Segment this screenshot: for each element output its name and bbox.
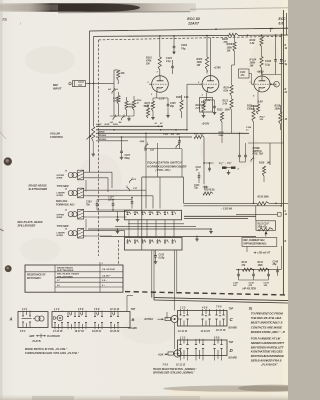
wire volume 2 bbox=[96, 129, 187, 131]
svg-text:OPPTAKSSTRØM ADJ.: OPPTAKSSTRØM ADJ. bbox=[243, 244, 267, 246]
coupling capacitor C104 0.1u bbox=[171, 60, 174, 74]
wire head4 links bbox=[112, 230, 125, 237]
label R101 470k 1W bbox=[145, 57, 152, 66]
svg-text:7 8 9: 7 8 9 bbox=[216, 305, 222, 308]
svg-text:S(M): S(M) bbox=[140, 141, 145, 143]
svg-text:1.2k: 1.2k bbox=[250, 42, 255, 45]
shield dashed line vertical bbox=[98, 40, 100, 256]
switch contact eq feed bbox=[176, 143, 180, 149]
svg-text:C142: C142 bbox=[159, 254, 165, 257]
switch contacts A2 A4 bbox=[109, 115, 125, 124]
right edge fragment 2 bbox=[285, 61, 288, 66]
resistor R106 100k vertical top bbox=[232, 35, 237, 80]
label FUNKSJONSVELGER caption bbox=[25, 351, 80, 355]
svg-text:R121: R121 bbox=[223, 101, 229, 103]
svg-text:47k: 47k bbox=[120, 72, 126, 75]
svg-text:0.05µ: 0.05µ bbox=[159, 257, 165, 259]
right edge fragment 1 bbox=[285, 45, 288, 50]
svg-text:C11: C11 bbox=[156, 212, 159, 214]
paragraph marker D bbox=[249, 306, 252, 310]
label MODE SWITCH caption bbox=[25, 347, 68, 351]
svg-text:2.8V: 2.8V bbox=[257, 99, 264, 103]
lower strip pins bottom bbox=[163, 363, 186, 366]
B+ supply bus lower line bbox=[94, 35, 289, 36]
right edge fragment 5 bbox=[285, 211, 288, 216]
wire extra to aux vertical bbox=[167, 312, 175, 349]
label POS 178 bbox=[156, 168, 171, 172]
svg-text:A1: A1 bbox=[154, 123, 157, 125]
svg-text:6.6: 6.6 bbox=[279, 21, 284, 25]
svg-text:TOP: TOP bbox=[229, 342, 234, 344]
svg-text:AUX: AUX bbox=[157, 353, 164, 356]
label C106 0.1u bbox=[265, 60, 272, 66]
left signal wire vertical bbox=[93, 36, 95, 83]
svg-text:0.1µ: 0.1µ bbox=[265, 63, 270, 66]
label 500k bbox=[96, 124, 119, 126]
label TRACK SELECTOR caption bbox=[153, 368, 197, 371]
svg-text:BOARD: BOARD bbox=[129, 328, 138, 330]
svg-text:27k: 27k bbox=[241, 265, 247, 267]
svg-text:0.8 ~: 0.8 ~ bbox=[102, 280, 108, 282]
svg-text:500k: 500k bbox=[113, 124, 119, 126]
label C105 25u bbox=[169, 103, 176, 108]
svg-text:EXTRA: EXTRA bbox=[145, 318, 154, 321]
svg-text:KONTAKTENE VELGES: KONTAKTENE VELGES bbox=[251, 350, 283, 354]
svg-text:100k: 100k bbox=[264, 197, 270, 199]
label R111 510 bbox=[247, 105, 253, 111]
svg-text:B: B bbox=[132, 317, 135, 322]
double wire right lower bbox=[184, 205, 282, 207]
label BROWN2 bbox=[98, 139, 107, 141]
svg-text:A15: A15 bbox=[149, 150, 155, 152]
label R121 2.4k bbox=[222, 101, 229, 106]
svg-text:10 11 12: 10 11 12 bbox=[110, 308, 120, 311]
strip B contacts upper bbox=[67, 312, 119, 317]
labels HP filter caps bbox=[233, 283, 270, 288]
lower right strip box bbox=[178, 340, 228, 356]
wire top right vertical bbox=[270, 29, 272, 33]
wire V3 grid bbox=[251, 74, 253, 85]
label KORREKSJONSOMKOBLER bbox=[147, 164, 186, 168]
rec head lower wires bbox=[87, 230, 125, 236]
svg-text:+24.5V: +24.5V bbox=[202, 123, 210, 126]
svg-text:BRYTEREN PARTSLUTT: BRYTEREN PARTSLUTT bbox=[251, 345, 285, 349]
svg-text:RESISTANCE OF: RESISTANCE OF bbox=[27, 275, 46, 277]
svg-text:2.4k: 2.4k bbox=[222, 102, 228, 105]
contact C17 bbox=[126, 186, 138, 192]
volume potentiometer R100 500k bbox=[87, 127, 96, 157]
switch contact S(M)1 bbox=[140, 141, 155, 152]
label BIAS ADJ FORMAGN ADJ bbox=[56, 200, 75, 206]
svg-text:R118: R118 bbox=[259, 163, 265, 165]
upper right strip box bbox=[178, 311, 228, 327]
resistor R102 27k inline on bus bbox=[228, 33, 239, 36]
lower right strip pins top bbox=[180, 336, 220, 339]
svg-text:+176V: +176V bbox=[214, 67, 222, 70]
svg-text:SLETTEHODER: SLETTEHODER bbox=[57, 270, 74, 272]
label REC CURRENT ADJ box bbox=[242, 238, 277, 247]
right page border line bbox=[282, 10, 284, 295]
resistor R118 1M bbox=[259, 163, 270, 183]
strip row1 contacts bbox=[127, 211, 176, 214]
svg-text:6.8k: 6.8k bbox=[224, 90, 229, 92]
label TOP B BOARD bbox=[129, 309, 138, 330]
label SPORVELGER caption bbox=[153, 372, 195, 375]
right edge fragment 6 bbox=[285, 241, 287, 243]
resistor R111 510 vertical bbox=[252, 105, 255, 122]
HP filter wire bbox=[236, 269, 281, 271]
svg-text:4 5 6: 4 5 6 bbox=[213, 336, 220, 339]
svg-text:25µ: 25µ bbox=[272, 264, 278, 266]
svg-text:CONTACTS ARE MADE: CONTACTS ARE MADE bbox=[251, 325, 283, 329]
label BEIGE bbox=[98, 131, 105, 133]
right edge fragment 4 bbox=[285, 119, 288, 121]
svg-text:100k: 100k bbox=[275, 108, 281, 111]
label REC PLAYB HEADS bbox=[18, 221, 43, 228]
label AMP PLAYBACK arrows bbox=[28, 334, 60, 338]
svg-text:AG: AG bbox=[176, 134, 181, 136]
capacitor C101 300 on wire bbox=[163, 134, 181, 149]
svg-text:500µ: 500µ bbox=[125, 158, 131, 160]
svg-text:FUNKSJONSVELGER I STILLING „PL: FUNKSJONSVELGER I STILLING „PLAYB.” bbox=[25, 351, 80, 355]
label 300k b bbox=[129, 104, 135, 109]
wire volume 4 bbox=[96, 136, 192, 138]
strip B contacts lower bbox=[54, 323, 119, 328]
erase head wires right bbox=[87, 172, 112, 192]
svg-text:WIRE: WIRE bbox=[57, 217, 63, 219]
bottom frame double rule upper bbox=[154, 298, 288, 301]
svg-text:REC./PLAYB. HEADS: REC./PLAYB. HEADS bbox=[57, 274, 79, 276]
svg-text:WIRE: WIRE bbox=[57, 178, 63, 180]
svg-text:TOP: TOP bbox=[229, 309, 234, 311]
label R116 100k bbox=[275, 105, 281, 111]
svg-text:C104: C104 bbox=[108, 196, 114, 199]
wire volume 5 bbox=[96, 140, 128, 142]
switch A box bbox=[18, 312, 48, 328]
svg-text:1 2 3: 1 2 3 bbox=[180, 336, 186, 339]
label R106 100k 1W bbox=[227, 43, 233, 52]
label lower horn 1 bbox=[57, 193, 66, 198]
interconnect wire b bbox=[115, 225, 196, 227]
strip row1 labels bbox=[126, 212, 174, 214]
svg-text:R122: R122 bbox=[217, 110, 223, 112]
switch strip row2 box bbox=[125, 238, 183, 251]
strip B jack bbox=[53, 315, 63, 321]
wire strip B up bbox=[127, 296, 133, 312]
label 200mV bbox=[254, 252, 271, 255]
right edge fragment 3 bbox=[284, 89, 288, 94]
resistor R106a vertical bbox=[117, 92, 120, 104]
svg-text:SLETTEHODER: SLETTEHODER bbox=[29, 188, 48, 191]
label PLAYBACK right bbox=[260, 363, 279, 367]
ground bus wire bbox=[88, 228, 211, 230]
head interconnect wires bbox=[85, 180, 87, 230]
label upper wire 2 bbox=[57, 214, 65, 219]
svg-text:DER B AVVIKER FRA S: DER B AVVIKER FRA S bbox=[251, 359, 282, 363]
HP filter bottom wire bbox=[239, 279, 269, 281]
HP filter resistor 2 bbox=[259, 268, 269, 271]
resistor R103 100k 1W vertical bbox=[205, 36, 208, 74]
label C201 74u bbox=[181, 43, 188, 51]
svg-text:CONTROL: CONTROL bbox=[50, 135, 64, 139]
svg-text:SPORVELGER I STILLING „NORMAL”: SPORVELGER I STILLING „NORMAL” bbox=[153, 372, 195, 375]
output terminal M bbox=[270, 81, 279, 87]
svg-text:REC. CURRENT ADJ.: REC. CURRENT ADJ. bbox=[243, 240, 265, 242]
svg-text:6 5 4: 6 5 4 bbox=[20, 330, 26, 333]
svg-text:C148: C148 bbox=[273, 260, 279, 263]
shielded pot P104 2.5k box bbox=[200, 98, 213, 113]
switch contact A3 bbox=[107, 88, 119, 94]
right inner vertical wire bbox=[280, 34, 282, 206]
svg-text:220k: 220k bbox=[218, 135, 225, 137]
label +24.5V bbox=[202, 123, 210, 126]
wire eq feed horizontal bbox=[144, 149, 182, 177]
label R110 1.2k bbox=[250, 39, 256, 45]
label PLAYB bbox=[33, 340, 42, 343]
upper right strip pins bbox=[180, 305, 222, 309]
svg-text:BOARD: BOARD bbox=[229, 357, 238, 359]
capacitor C115 47n boxed bbox=[239, 69, 252, 78]
svg-text:BROWN: BROWN bbox=[98, 135, 107, 137]
pins between strips right bbox=[178, 329, 226, 333]
wire V3 plate up bbox=[261, 72, 263, 76]
label TOP D BOARD bbox=[229, 342, 238, 359]
svg-text:UPPER: UPPER bbox=[57, 175, 65, 177]
tube V1 pin numbers bbox=[147, 72, 159, 97]
HP filter resistor 1 bbox=[243, 268, 254, 271]
strip B pins bottom bbox=[53, 330, 120, 333]
svg-text:1 2 3: 1 2 3 bbox=[54, 308, 60, 311]
HP filter cap 3 bbox=[267, 269, 270, 280]
strip B pins top bbox=[54, 308, 120, 311]
shield dashed line horizontal bbox=[99, 36, 284, 40]
tube type label ECC83/12AX7 bbox=[187, 17, 200, 26]
handwritten page number 76 bbox=[2, 17, 7, 22]
label 2.5 3 6ft bbox=[221, 207, 232, 210]
switch A bottom contacts bbox=[22, 322, 31, 328]
svg-text:TYPE NEW: TYPE NEW bbox=[57, 226, 70, 228]
svg-text:HORN: HORN bbox=[57, 195, 64, 197]
cathode capacitor C109 bbox=[207, 100, 217, 115]
label 2.8V bbox=[257, 99, 264, 103]
svg-text:TYPE NEW: TYPE NEW bbox=[57, 186, 70, 188]
label MIC INPUT bbox=[53, 83, 62, 91]
cathode resistor R119 510 bbox=[251, 92, 260, 114]
capacitor C142 0.05u bbox=[154, 250, 165, 264]
svg-text:7 8 9: 7 8 9 bbox=[94, 308, 100, 311]
wires right column bbox=[248, 122, 283, 203]
switch A pins bottom bbox=[20, 330, 26, 333]
wire mic down to volume bbox=[93, 83, 95, 126]
resistor R109 2k vertical bbox=[144, 104, 154, 118]
label +169V at V3 bbox=[257, 71, 265, 74]
capacitor C107 500u bbox=[120, 136, 131, 160]
label TYPE NEW 2 bbox=[57, 226, 70, 228]
svg-text:LOWER: LOWER bbox=[57, 193, 66, 195]
resistor R106b vertical bbox=[125, 97, 128, 110]
svg-text:CA 300 ~: CA 300 ~ bbox=[102, 275, 112, 277]
label +176V bbox=[214, 67, 222, 70]
svg-text:100k: 100k bbox=[225, 110, 231, 112]
svg-text:C113: C113 bbox=[240, 72, 246, 74]
svg-text:CA. 85 OHM: CA. 85 OHM bbox=[102, 269, 115, 271]
strip B pin ticks bbox=[55, 310, 118, 313]
wire down from R117 bbox=[203, 137, 205, 184]
svg-text:510: 510 bbox=[247, 108, 252, 111]
svg-text:C107: C107 bbox=[125, 155, 131, 157]
upper right strip contacts bbox=[179, 309, 224, 326]
tube V3 pin numbers bbox=[250, 72, 261, 98]
svg-text:25µ: 25µ bbox=[169, 106, 175, 108]
svg-text:ECC 83: ECC 83 bbox=[187, 17, 200, 21]
label R108 6.8k bbox=[176, 97, 189, 99]
grid resistor R105 vertical bbox=[114, 70, 120, 84]
junction dots double wire bbox=[253, 203, 282, 207]
svg-text:16 17 18: 16 17 18 bbox=[75, 330, 85, 333]
label upper wire 1 bbox=[57, 175, 65, 180]
resistor R108 6.8k vertical bbox=[180, 95, 183, 118]
interconnect wire a bbox=[128, 223, 184, 225]
cap C113 72p horizontal bbox=[194, 185, 208, 190]
wire volume3 to head2 vertical bbox=[145, 133, 147, 190]
svg-text:MODES FROM „REC.” , R: MODES FROM „REC.” , R bbox=[251, 330, 286, 334]
svg-text:R107: R107 bbox=[145, 103, 151, 105]
ground under V1 cathode bbox=[151, 113, 170, 120]
svg-text:LOWER: LOWER bbox=[57, 233, 66, 235]
svg-text:MODE SWITCH IN POS. „PLAYB.”: MODE SWITCH IN POS. „PLAYB.” bbox=[25, 347, 68, 351]
wire row1 out upper bbox=[184, 215, 256, 217]
wire volume 3 bbox=[96, 132, 249, 134]
label 1.1V bbox=[159, 97, 165, 101]
svg-text:4 5 6: 4 5 6 bbox=[201, 306, 208, 309]
svg-text:VOLUM: VOLUM bbox=[50, 132, 60, 136]
ground on bus 1 bbox=[116, 211, 120, 221]
capacitor C201 74u bbox=[172, 35, 175, 54]
wire row1 out lower bbox=[184, 218, 248, 220]
switch A contacts bbox=[22, 312, 32, 319]
svg-text:M: M bbox=[274, 83, 276, 86]
resistor R124 8.2k horizontal bbox=[203, 189, 215, 196]
long wire with ground bbox=[100, 235, 256, 237]
inline resistor R130 100k bbox=[257, 197, 269, 205]
rec head wires right bbox=[87, 211, 127, 217]
ground grid network bbox=[127, 116, 131, 121]
svg-text:19 20 21: 19 20 21 bbox=[92, 330, 102, 333]
equalization box outline bbox=[142, 177, 184, 250]
svg-text:MOTSTAND I: MOTSTAND I bbox=[27, 278, 41, 280]
wire mic to grid network bbox=[86, 83, 115, 85]
V3 cathode label bbox=[260, 117, 266, 122]
triode V3 (ECC83 section 3) bbox=[252, 76, 271, 92]
svg-text:12AX7: 12AX7 bbox=[188, 22, 200, 26]
cathode bypass capacitor C105 25u bbox=[157, 98, 170, 113]
ground under V2 bbox=[202, 113, 206, 118]
svg-text:PLAYB.: PLAYB. bbox=[33, 340, 42, 343]
triode V2 (ECC83 section 2) bbox=[200, 76, 219, 93]
svg-text:2.7k: 2.7k bbox=[195, 108, 201, 110]
svg-text:R131: R131 bbox=[258, 262, 264, 264]
svg-text:13 14 15: 13 14 15 bbox=[201, 330, 211, 333]
svg-text:HORN: HORN bbox=[57, 235, 64, 237]
svg-text:C114: C114 bbox=[246, 126, 252, 129]
label A switch bbox=[9, 317, 13, 322]
resistor R104 100k 1W vertical bbox=[260, 57, 263, 73]
svg-text:R108: R108 bbox=[176, 97, 182, 99]
capacitor C106 0.1u vertical bbox=[274, 34, 277, 74]
svg-text:C103: C103 bbox=[86, 202, 92, 204]
right edge tube label bbox=[279, 17, 287, 26]
wire grid col bbox=[110, 83, 134, 116]
svg-text:1 2 3: 1 2 3 bbox=[180, 306, 186, 309]
label ERASE HEADS SLETTEHODER bbox=[29, 184, 48, 191]
cathode resistor R112 2.7k bbox=[202, 92, 207, 113]
resistor R121 2.4k vertical bbox=[230, 96, 233, 110]
svg-text:47n: 47n bbox=[240, 74, 246, 77]
extra jack bbox=[165, 315, 178, 322]
label R115 220k bbox=[218, 132, 225, 137]
wires strip row1 to row2 bbox=[129, 220, 174, 238]
svg-text:3 2 1: 3 2 1 bbox=[22, 308, 28, 311]
svg-text:PLAYBACK: PLAYBACK bbox=[47, 335, 60, 338]
contact C8 bbox=[130, 178, 137, 184]
wire R110 to R104 bbox=[261, 47, 263, 57]
svg-text:1¼" → 3⅛": 1¼" → 3⅛" bbox=[219, 161, 232, 165]
svg-text:7 8 9: 7 8 9 bbox=[163, 363, 169, 366]
svg-text:ERASE HEADS: ERASE HEADS bbox=[57, 267, 73, 269]
svg-text:0.1µ: 0.1µ bbox=[166, 60, 171, 63]
ground on bus 2 bbox=[116, 228, 120, 233]
svg-text:R113 C107: R113 C107 bbox=[258, 223, 270, 225]
left shield wire vertical bbox=[89, 31, 91, 172]
triode V1 (ECC83 section 1) bbox=[149, 76, 168, 93]
svg-text:THE REC./PLAYB. HEA: THE REC./PLAYB. HEA bbox=[251, 316, 282, 320]
label BROWN bbox=[98, 135, 107, 137]
label R103 100k 1W bbox=[197, 58, 203, 67]
svg-text:4 5 6: 4 5 6 bbox=[77, 308, 84, 311]
svg-text:R112: R112 bbox=[196, 105, 202, 107]
label R132 27k bbox=[241, 262, 248, 267]
label EXTRA bbox=[145, 318, 165, 321]
wire pot top bbox=[255, 206, 257, 221]
label C114 bbox=[246, 126, 252, 132]
svg-text:D): D) bbox=[249, 306, 252, 310]
label TOP C BOARD bbox=[229, 309, 238, 330]
noise switch contact bbox=[251, 156, 255, 162]
wires to extra jack bbox=[152, 251, 177, 311]
supply node wire bbox=[262, 72, 282, 75]
label 47k bbox=[120, 72, 126, 75]
cap C113 at node bbox=[203, 162, 213, 172]
svg-text:( POS. 178 ): ( POS. 178 ) bbox=[156, 168, 171, 172]
rec head connector upper bbox=[65, 209, 87, 219]
shield dashed line vertical 2 bbox=[118, 240, 120, 265]
bias capacitor C106b bbox=[131, 197, 134, 209]
svg-text:C112: C112 bbox=[196, 167, 202, 169]
ink stain upper bbox=[4, 157, 12, 165]
cut line (heavy dashes) bbox=[125, 292, 288, 295]
erase head connector upper bbox=[65, 170, 87, 180]
HP filter cap 2 bbox=[252, 269, 255, 280]
left margin scratch bbox=[0, 132, 6, 139]
svg-text:MUST UNNOTICABLY S: MUST UNNOTICABLY S bbox=[251, 321, 283, 325]
strip B bottom ticks bbox=[55, 328, 118, 330]
double wire right upper bbox=[184, 202, 289, 204]
B+ supply bus upper line bbox=[90, 28, 289, 31]
svg-text:„PLAYBACK”.: „PLAYBACK”. bbox=[260, 363, 279, 367]
label R112 2.7k bbox=[195, 105, 202, 110]
resistor R110 1.2k vertical bbox=[260, 34, 263, 46]
svg-text:NOR: NOR bbox=[105, 124, 110, 126]
